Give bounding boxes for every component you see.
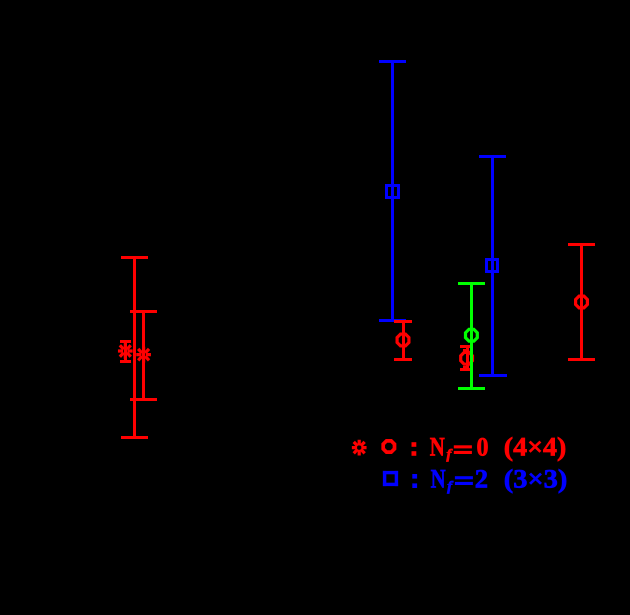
svg-text:N: N [431, 464, 446, 493]
cap top [121, 256, 148, 259]
blue square marker 1 [385, 184, 400, 199]
svg-text:0: 0 [477, 433, 489, 462]
blue error bar 2 [479, 155, 507, 377]
blue error bar 1 [379, 60, 406, 322]
red circle marker (x=581) [576, 296, 588, 308]
red error bar with circle (x=403) [394, 320, 412, 361]
red circle marker (x=403) [397, 334, 409, 346]
green circle marker [466, 329, 478, 341]
svg-text:f: f [447, 479, 453, 494]
red error bar right (x=581) [568, 243, 595, 361]
red small double error bar (x=466) [460, 345, 471, 371]
legend line 2 text: : N_f=2 (3x3) [412, 464, 567, 494]
red medium error bar (left cluster inner) [130, 310, 157, 401]
svg-text:(4×4): (4×4) [504, 433, 567, 462]
red asterisk marker 2 [136, 347, 151, 363]
legend square marker (blue) [383, 471, 398, 486]
legend asterisk marker (red) [352, 440, 367, 456]
legend line 1 text: : N_f=0 (4x4) [412, 433, 567, 463]
blue square marker 2 [485, 258, 499, 273]
cap bottom [121, 436, 148, 439]
svg-text:N: N [430, 433, 445, 462]
red big error bar (left cluster outer) [121, 256, 148, 439]
wire [133, 256, 136, 439]
green error bar [458, 282, 485, 390]
svg-text:2: 2 [475, 464, 488, 493]
legend circle marker (red) [383, 441, 394, 452]
svg-text:f: f [446, 448, 452, 463]
svg-text:(3×3): (3×3) [504, 464, 568, 493]
red circle marker (x=466) [461, 352, 473, 364]
red small error bar (left cluster tiny) [120, 340, 131, 363]
red asterisk marker 1 [118, 343, 133, 359]
